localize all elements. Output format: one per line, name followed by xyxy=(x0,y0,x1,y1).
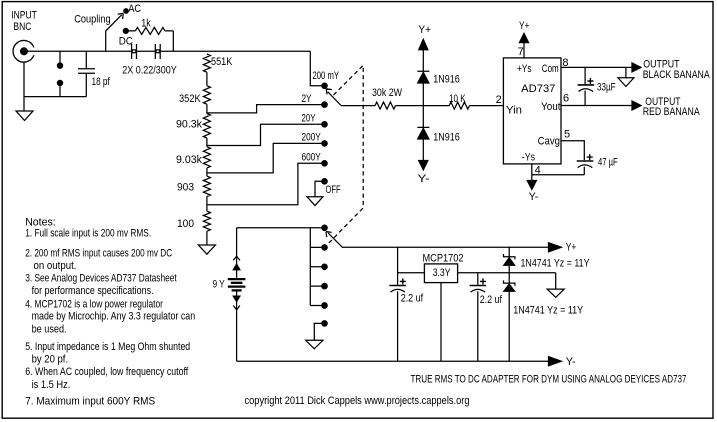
svg-text:600Y: 600Y xyxy=(302,152,322,164)
svg-text:3. See Analog Devices AD737 Da: 3. See Analog Devices AD737 Datasheet xyxy=(25,273,177,285)
svg-text:BNC: BNC xyxy=(13,21,31,33)
svg-text:1N916: 1N916 xyxy=(433,74,460,86)
svg-text:352K: 352K xyxy=(179,93,201,105)
svg-text:DC: DC xyxy=(119,35,133,47)
svg-text:copyright 2011 Dick Cappels w: copyright 2011 Dick Cappels www.projects… xyxy=(245,395,470,407)
svg-text:18 pf: 18 pf xyxy=(92,76,111,88)
svg-text:by 20 pf.: by 20 pf. xyxy=(32,354,69,366)
svg-text:9.03k: 9.03k xyxy=(176,154,202,166)
svg-text:Yin: Yin xyxy=(506,105,522,117)
svg-text:-Ys: -Ys xyxy=(522,152,536,164)
svg-text:+Ys: +Ys xyxy=(517,63,532,75)
svg-text:1k: 1k xyxy=(141,18,151,30)
svg-text:2X 0.22/300Y: 2X 0.22/300Y xyxy=(122,64,177,76)
svg-text:1. Full scale input is 200 mv: 1. Full scale input is 200 mv RMS. xyxy=(25,227,151,239)
svg-text:7. Maximum input 600Y RMS: 7. Maximum input 600Y RMS xyxy=(25,395,155,407)
svg-text:Y-: Y- xyxy=(529,191,539,203)
svg-text:90.3k: 90.3k xyxy=(176,119,202,131)
svg-text:INPUT: INPUT xyxy=(11,10,37,22)
svg-text:2: 2 xyxy=(496,94,502,106)
svg-text:1N4741 Yz = 11Y: 1N4741 Yz = 11Y xyxy=(521,257,591,269)
svg-text:30k 2W: 30k 2W xyxy=(372,87,402,99)
svg-text:20Y: 20Y xyxy=(302,112,316,124)
svg-text:200Y: 200Y xyxy=(302,132,322,144)
svg-text:TRUE RMS TO DC ADAPTER FOR DYM: TRUE RMS TO DC ADAPTER FOR DYM USING ANA… xyxy=(411,374,687,386)
svg-text:2. 200 mf RMS input causes 200: 2. 200 mf RMS input causes 200 mv DC xyxy=(25,247,172,259)
svg-text:Y-: Y- xyxy=(566,356,576,368)
svg-text:47 µF: 47 µF xyxy=(598,157,618,169)
svg-text:1N916: 1N916 xyxy=(433,132,460,144)
svg-text:made by Microchip. Any 3.3 reg: made by Microchip. Any 3.3 regulator can xyxy=(32,311,196,323)
svg-text:4. MCP1702 is a low power regu: 4. MCP1702 is a low power regulator xyxy=(25,299,163,311)
svg-text:1N4741 Yz = 11Y: 1N4741 Yz = 11Y xyxy=(513,305,584,317)
svg-text:8: 8 xyxy=(562,57,568,69)
svg-text:OFF: OFF xyxy=(326,184,341,196)
svg-text:BLACK BANANA: BLACK BANANA xyxy=(643,69,711,81)
svg-text:2.2 uf: 2.2 uf xyxy=(401,292,424,304)
svg-text:6. When AC coupled, low freque: 6. When AC coupled, low frequency cutoff xyxy=(25,366,189,378)
svg-text:for performance specifications: for performance specifications. xyxy=(32,285,154,297)
svg-text:AD737: AD737 xyxy=(521,83,555,95)
svg-text:100: 100 xyxy=(177,218,194,230)
svg-text:4: 4 xyxy=(535,165,541,177)
svg-text:10 K: 10 K xyxy=(449,93,466,105)
svg-text:Y+: Y+ xyxy=(519,20,529,32)
svg-text:Yout: Yout xyxy=(541,101,561,113)
svg-text:903: 903 xyxy=(177,182,194,194)
svg-text:Cavg: Cavg xyxy=(538,135,560,147)
svg-text:Com: Com xyxy=(542,63,559,75)
svg-text:9 Y: 9 Y xyxy=(213,279,225,291)
svg-text:on output.: on output. xyxy=(34,260,77,272)
svg-text:Y+: Y+ xyxy=(418,24,431,36)
svg-text:Y-: Y- xyxy=(418,173,430,185)
svg-text:is 1.5 Hz.: is 1.5 Hz. xyxy=(32,379,71,391)
svg-text:Coupling: Coupling xyxy=(74,13,110,25)
svg-text:6: 6 xyxy=(563,92,569,104)
svg-text:RED BANANA: RED BANANA xyxy=(643,106,701,118)
svg-text:2Y: 2Y xyxy=(302,93,312,105)
svg-text:551K: 551K xyxy=(211,56,233,68)
svg-text:be used.: be used. xyxy=(32,323,67,335)
svg-text:MCP1702: MCP1702 xyxy=(423,252,464,264)
svg-text:AC: AC xyxy=(128,3,141,15)
svg-text:200 mY: 200 mY xyxy=(313,70,340,82)
svg-text:5. Input impedance is 1 Meg Oh: 5. Input impedance is 1 Meg Ohm shunted xyxy=(25,341,190,353)
svg-text:2.2 uf: 2.2 uf xyxy=(480,294,503,306)
svg-text:3.3Y: 3.3Y xyxy=(433,267,451,279)
svg-text:7: 7 xyxy=(518,46,524,58)
svg-text:33µF: 33µF xyxy=(597,81,616,93)
svg-text:5: 5 xyxy=(564,128,570,140)
svg-text:Y+: Y+ xyxy=(566,241,577,253)
